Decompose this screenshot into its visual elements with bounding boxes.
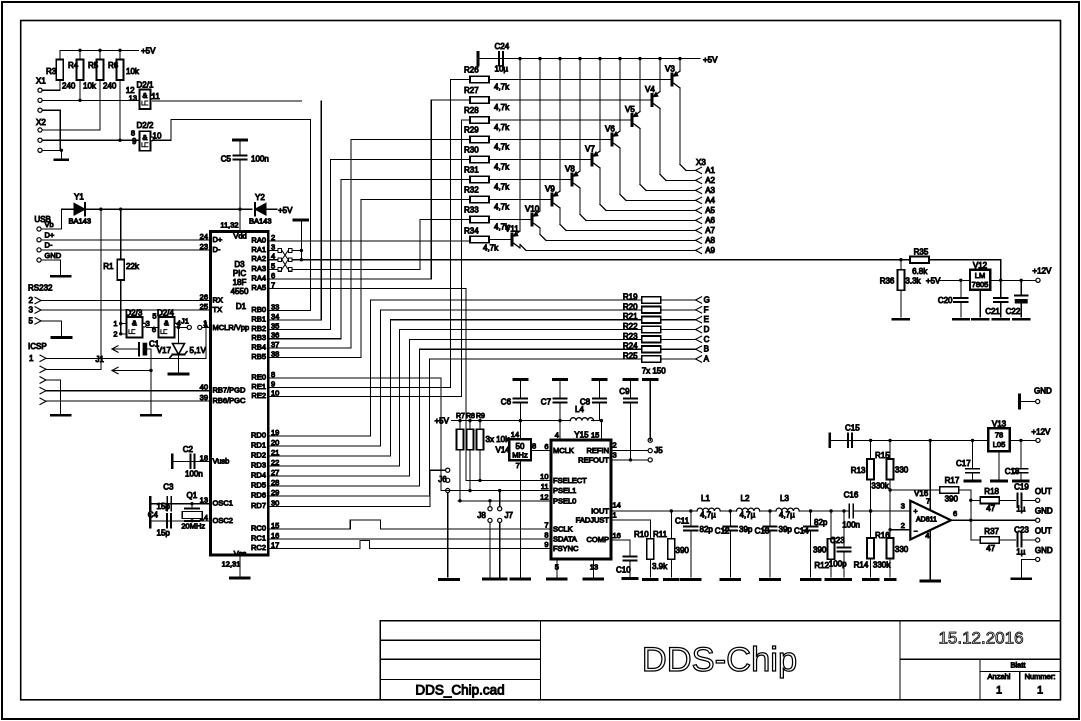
svg-text:1µ: 1µ (1016, 548, 1025, 557)
svg-text:11: 11 (541, 482, 549, 491)
svg-text:D-: D- (45, 241, 53, 250)
svg-text:100p: 100p (829, 560, 847, 569)
svg-text:RE0: RE0 (251, 373, 266, 382)
svg-text:V6: V6 (605, 125, 615, 134)
svg-text:R8: R8 (466, 413, 475, 420)
svg-text:14: 14 (511, 430, 519, 439)
svg-text:OSC2: OSC2 (213, 516, 233, 525)
svg-text:&: & (164, 319, 169, 328)
svg-text:R30: R30 (464, 146, 479, 155)
svg-text:D: D (704, 325, 710, 334)
svg-text:+12V: +12V (1031, 428, 1051, 437)
svg-text:E: E (704, 315, 709, 324)
svg-text:10: 10 (153, 132, 162, 141)
svg-text:2: 2 (901, 521, 905, 530)
svg-text:V5: V5 (625, 105, 635, 114)
svg-text:1: 1 (1037, 685, 1043, 697)
svg-text:13: 13 (590, 562, 598, 571)
svg-text:R37: R37 (984, 527, 999, 536)
svg-text:1: 1 (613, 511, 617, 520)
svg-text:6: 6 (953, 509, 957, 518)
svg-text:Y2: Y2 (255, 193, 265, 202)
svg-text:−: − (914, 529, 918, 536)
svg-text:C3: C3 (163, 483, 174, 492)
svg-text:GND: GND (1035, 546, 1053, 555)
svg-text:RC1: RC1 (251, 533, 266, 542)
svg-text:A4: A4 (705, 196, 715, 205)
svg-text:RB6/PGC: RB6/PGC (213, 396, 247, 405)
svg-text:39p: 39p (739, 525, 753, 534)
svg-text:GND: GND (1035, 507, 1053, 516)
svg-text:C19: C19 (1014, 483, 1029, 492)
svg-text:14: 14 (613, 501, 621, 510)
svg-text:C5: C5 (221, 155, 232, 164)
svg-text:12,31: 12,31 (222, 560, 241, 569)
svg-text:V7: V7 (585, 145, 595, 154)
svg-text:13: 13 (129, 94, 137, 103)
svg-text:R15: R15 (875, 451, 890, 460)
svg-text:C21: C21 (985, 307, 1000, 316)
svg-text:4,7k: 4,7k (494, 143, 510, 152)
svg-text:A7: A7 (705, 226, 715, 235)
svg-text:J1: J1 (181, 316, 189, 325)
svg-text:Q1: Q1 (187, 491, 198, 500)
svg-text:20MHz: 20MHz (181, 522, 205, 531)
svg-text:R11: R11 (653, 530, 668, 539)
svg-text:R27: R27 (464, 86, 479, 95)
svg-text:+5V: +5V (703, 56, 718, 65)
svg-text:RA5: RA5 (251, 283, 266, 292)
svg-text:RC0: RC0 (251, 523, 266, 532)
svg-text:C23: C23 (1014, 526, 1029, 535)
svg-text:8: 8 (544, 530, 548, 539)
svg-text:C1: C1 (149, 340, 160, 349)
svg-text:2: 2 (613, 441, 617, 450)
svg-text:J5: J5 (654, 446, 663, 455)
svg-text:240: 240 (103, 82, 117, 91)
svg-text:A6: A6 (705, 216, 715, 225)
svg-text:RD3: RD3 (251, 461, 266, 470)
svg-text:D3: D3 (234, 260, 245, 269)
svg-text:4550: 4550 (231, 287, 249, 296)
svg-text:X1: X1 (36, 77, 46, 86)
svg-text:10k: 10k (83, 82, 97, 91)
svg-text:R35: R35 (914, 248, 929, 257)
svg-text:G: G (704, 296, 710, 305)
svg-text:C18: C18 (1005, 467, 1020, 476)
svg-text:C23: C23 (830, 536, 845, 545)
svg-text:+: + (914, 509, 918, 516)
svg-text:RB7/PGD: RB7/PGD (213, 386, 247, 395)
svg-text:D2/4: D2/4 (157, 309, 174, 318)
svg-text:7x 150: 7x 150 (642, 367, 667, 376)
svg-text:RB3: RB3 (251, 333, 266, 342)
svg-text:4: 4 (925, 531, 929, 540)
svg-text:C8: C8 (580, 398, 591, 407)
svg-text:10: 10 (540, 472, 548, 481)
svg-text:C15: C15 (845, 424, 860, 433)
svg-text:240: 240 (62, 82, 76, 91)
svg-text:15: 15 (591, 431, 599, 440)
svg-text:8: 8 (532, 441, 536, 450)
svg-text:C14: C14 (794, 527, 809, 536)
svg-text:4,7k: 4,7k (494, 83, 510, 92)
svg-text:DDS_Chip.cad: DDS_Chip.cad (415, 683, 504, 698)
svg-text:MCLR/Vpp: MCLR/Vpp (213, 323, 250, 332)
svg-text:R32: R32 (464, 186, 479, 195)
svg-text:RE2: RE2 (251, 391, 266, 400)
svg-text:330: 330 (895, 545, 909, 554)
svg-text:V8: V8 (565, 165, 575, 174)
svg-text:V9: V9 (545, 185, 555, 194)
svg-text:D2/3: D2/3 (125, 309, 142, 318)
svg-text:A9: A9 (705, 246, 715, 255)
svg-text:330k: 330k (871, 482, 889, 491)
svg-text:RD4: RD4 (251, 471, 266, 480)
svg-text:X3: X3 (696, 158, 706, 167)
svg-text:C9: C9 (619, 387, 630, 396)
svg-text:A: A (704, 355, 710, 364)
svg-text:L3: L3 (780, 494, 789, 503)
svg-text:&: & (142, 133, 147, 142)
svg-text:PSEL0: PSEL0 (553, 496, 576, 505)
svg-text:390: 390 (676, 546, 690, 555)
svg-text:3x 10k: 3x 10k (486, 435, 511, 444)
svg-text:V3: V3 (665, 65, 675, 74)
svg-text:BA143: BA143 (69, 217, 92, 226)
svg-text:R1: R1 (103, 262, 114, 271)
svg-text:RA3: RA3 (251, 264, 266, 273)
svg-text:6.8k: 6.8k (912, 267, 928, 276)
svg-text:C22: C22 (1006, 307, 1021, 316)
svg-text:4,7µ: 4,7µ (740, 511, 756, 520)
svg-text:V13: V13 (992, 420, 1007, 429)
svg-text:R7: R7 (456, 413, 465, 420)
svg-text:82p: 82p (700, 525, 714, 534)
svg-text:R18: R18 (984, 487, 999, 496)
svg-text:15p: 15p (157, 502, 171, 511)
svg-text:4,7k: 4,7k (494, 123, 510, 132)
svg-text:11: 11 (152, 92, 161, 101)
svg-text:Blatt: Blatt (1010, 660, 1026, 669)
svg-text:+5V: +5V (435, 417, 450, 426)
svg-text:LM: LM (975, 271, 985, 280)
svg-text:C4: C4 (148, 511, 159, 520)
svg-text:Anzahl: Anzahl (988, 672, 1011, 681)
svg-text:82p: 82p (814, 518, 828, 527)
svg-text:J8: J8 (477, 511, 486, 520)
svg-text:Y15: Y15 (574, 431, 589, 440)
svg-text:4,7k: 4,7k (483, 244, 499, 253)
svg-text:390: 390 (945, 495, 959, 504)
svg-text:22k: 22k (126, 262, 140, 271)
svg-text:BA143: BA143 (249, 217, 272, 226)
svg-text:RX: RX (213, 296, 223, 305)
svg-text:D2/1: D2/1 (137, 80, 154, 89)
svg-text:C7: C7 (541, 398, 552, 407)
svg-text:1: 1 (996, 685, 1002, 697)
svg-text:7: 7 (926, 497, 930, 506)
svg-text:15.12.2016: 15.12.2016 (938, 629, 1023, 648)
svg-text:MHz: MHz (512, 451, 528, 460)
svg-text:C: C (704, 335, 710, 344)
svg-text:C17: C17 (956, 459, 971, 468)
svg-text:12: 12 (540, 492, 548, 501)
svg-text:R29: R29 (464, 126, 479, 135)
svg-text:D1: D1 (236, 302, 247, 311)
svg-text:R14: R14 (854, 561, 869, 570)
svg-text:4: 4 (555, 431, 559, 440)
svg-text:2: 2 (29, 296, 34, 305)
svg-text:FSELECT: FSELECT (553, 476, 587, 485)
svg-text:100n: 100n (251, 155, 269, 164)
svg-text:RB0: RB0 (251, 305, 266, 314)
svg-text:PIC: PIC (233, 269, 247, 278)
svg-text:Vb: Vb (45, 220, 54, 229)
svg-text:DDS-Chip: DDS-Chip (642, 641, 797, 679)
svg-text:330: 330 (895, 466, 909, 475)
svg-text:RB5: RB5 (251, 352, 266, 361)
svg-text:L1: L1 (701, 494, 710, 503)
svg-text:3.3k: 3.3k (905, 277, 921, 286)
svg-text:R16: R16 (875, 531, 890, 540)
svg-text:RB2: RB2 (251, 324, 266, 333)
svg-text:1: 1 (29, 354, 34, 363)
svg-text:TX: TX (213, 305, 223, 314)
svg-text:C20: C20 (938, 296, 953, 305)
svg-text:&: & (132, 319, 137, 328)
svg-text:1: 1 (113, 319, 117, 328)
svg-text:RD7: RD7 (251, 501, 266, 510)
svg-text:390: 390 (813, 546, 827, 555)
svg-text:+5V: +5V (278, 206, 293, 215)
svg-text:C13: C13 (755, 527, 770, 536)
svg-text:3: 3 (901, 502, 905, 511)
svg-text:RA1: RA1 (251, 245, 266, 254)
svg-text:C2: C2 (183, 445, 194, 454)
svg-text:V12: V12 (973, 261, 988, 270)
svg-text:4,7k: 4,7k (494, 103, 510, 112)
svg-text:MCLK: MCLK (553, 446, 574, 455)
svg-text:5: 5 (29, 316, 34, 325)
svg-text:V4: V4 (645, 85, 655, 94)
svg-text:FADJUST: FADJUST (576, 516, 610, 525)
svg-text:IOUT: IOUT (591, 507, 609, 516)
svg-text:10µ: 10µ (495, 65, 509, 74)
svg-text:B: B (704, 345, 709, 354)
svg-text:R33: R33 (464, 206, 479, 215)
svg-text:D+: D+ (213, 235, 223, 244)
svg-text:+5V: +5V (141, 47, 156, 56)
svg-text:4,7k: 4,7k (494, 183, 510, 192)
svg-text:16: 16 (613, 531, 621, 540)
svg-text:J6: J6 (438, 475, 447, 484)
svg-text:RA0: RA0 (251, 236, 266, 245)
svg-text:18F: 18F (233, 278, 247, 287)
svg-text:47: 47 (986, 504, 995, 513)
svg-text:+12V: +12V (1032, 267, 1052, 276)
svg-text:A5: A5 (705, 206, 715, 215)
svg-text:Nummer:: Nummer: (1025, 672, 1056, 681)
svg-text:10k: 10k (126, 67, 140, 76)
svg-text:D+: D+ (45, 231, 55, 240)
svg-text:Y1: Y1 (74, 193, 84, 202)
svg-text:39p: 39p (779, 525, 793, 534)
svg-text:15p: 15p (157, 529, 171, 538)
svg-text:L05: L05 (993, 440, 1006, 449)
svg-text:C12: C12 (715, 527, 730, 536)
svg-text:RD1: RD1 (251, 441, 266, 450)
svg-text:D-: D- (213, 245, 221, 254)
svg-text:C16: C16 (844, 491, 859, 500)
svg-text:R36: R36 (880, 277, 895, 286)
svg-text:R5: R5 (88, 61, 99, 70)
svg-text:6: 6 (152, 325, 156, 334)
svg-text:RC2: RC2 (251, 543, 266, 552)
svg-text:SCLK: SCLK (553, 524, 573, 533)
svg-text:78: 78 (995, 431, 1003, 440)
svg-text:47: 47 (986, 544, 995, 553)
svg-text:3: 3 (29, 306, 34, 315)
svg-text:OUT: OUT (1035, 487, 1052, 496)
svg-text:RA4: RA4 (251, 274, 266, 283)
svg-text:V11: V11 (505, 225, 519, 234)
svg-text:R34: R34 (464, 227, 479, 236)
svg-text:R9: R9 (476, 413, 485, 420)
svg-text:9: 9 (544, 540, 548, 549)
svg-text:4,7µ: 4,7µ (700, 511, 716, 520)
svg-text:R26: R26 (464, 66, 479, 75)
svg-text:A1: A1 (705, 166, 715, 175)
svg-text:Vdd: Vdd (233, 232, 246, 241)
svg-text:V14: V14 (496, 446, 511, 455)
svg-text:REFOUT: REFOUT (578, 455, 609, 464)
svg-text:11,32: 11,32 (220, 221, 238, 230)
svg-text:R28: R28 (464, 106, 479, 115)
svg-text:Vusb: Vusb (213, 456, 230, 465)
svg-text:X2: X2 (36, 118, 46, 127)
svg-text:C10: C10 (616, 566, 631, 575)
svg-text:3.9k: 3.9k (652, 562, 668, 571)
svg-text:330k: 330k (873, 561, 891, 570)
svg-text:R31: R31 (464, 166, 479, 175)
svg-text:COMP: COMP (587, 535, 610, 544)
svg-text:RD0: RD0 (251, 431, 266, 440)
svg-text:7: 7 (544, 520, 548, 529)
svg-text:RA2: RA2 (251, 254, 266, 263)
svg-text:PSEL1: PSEL1 (553, 486, 576, 495)
svg-text:A8: A8 (705, 236, 715, 245)
svg-text:1µ: 1µ (1016, 505, 1025, 514)
svg-text:100n: 100n (842, 521, 860, 530)
svg-text:R13: R13 (851, 466, 866, 475)
svg-text:5: 5 (152, 312, 156, 321)
svg-text:RD2: RD2 (251, 451, 266, 460)
svg-text:C11: C11 (675, 517, 690, 526)
svg-text:FSYNC: FSYNC (553, 544, 579, 553)
svg-text:R17: R17 (945, 476, 960, 485)
svg-text:V10: V10 (525, 205, 540, 214)
svg-text:5,1V: 5,1V (190, 346, 207, 355)
svg-text:AD811: AD811 (916, 517, 937, 524)
svg-text:3: 3 (613, 451, 617, 460)
svg-text:&: & (142, 91, 147, 100)
svg-text:4,7k: 4,7k (494, 203, 510, 212)
svg-text:1: 1 (203, 319, 207, 328)
svg-text:OSC1: OSC1 (213, 499, 233, 508)
svg-text:7: 7 (516, 461, 520, 470)
svg-text:R6: R6 (108, 61, 119, 70)
svg-text:9: 9 (132, 137, 137, 146)
svg-text:R4: R4 (68, 61, 79, 70)
svg-text:4,7k: 4,7k (494, 163, 510, 172)
svg-text:REFIN: REFIN (587, 446, 610, 455)
svg-text:C24: C24 (495, 42, 510, 51)
svg-text:RB4: RB4 (251, 343, 266, 352)
svg-text:+5V: +5V (926, 277, 941, 286)
svg-text:D2/2: D2/2 (137, 121, 154, 130)
svg-text:7805: 7805 (972, 280, 989, 289)
svg-text:OUT: OUT (1035, 527, 1052, 536)
svg-text:RD6: RD6 (251, 491, 266, 500)
svg-text:F: F (704, 305, 709, 314)
svg-text:100n: 100n (185, 470, 203, 479)
svg-text:RD5: RD5 (251, 481, 266, 490)
svg-text:GND: GND (1034, 387, 1052, 396)
svg-text:A3: A3 (705, 186, 715, 195)
svg-text:4,7µ: 4,7µ (779, 511, 795, 520)
svg-text:J7: J7 (505, 511, 514, 520)
svg-text:J1: J1 (96, 355, 105, 364)
svg-text:RS232: RS232 (28, 284, 53, 293)
svg-text:R10: R10 (634, 530, 649, 539)
svg-text:6: 6 (544, 442, 548, 451)
svg-text:A2: A2 (705, 176, 715, 185)
svg-text:SDATA: SDATA (553, 534, 577, 543)
svg-text:C6: C6 (501, 398, 512, 407)
svg-text:RE1: RE1 (251, 382, 266, 391)
svg-text:ICSP: ICSP (28, 342, 47, 351)
svg-text:R3: R3 (46, 67, 57, 76)
svg-text:GND: GND (45, 251, 62, 260)
svg-text:2: 2 (113, 330, 117, 339)
svg-text:R12: R12 (814, 561, 829, 570)
svg-text:RB1: RB1 (251, 314, 266, 323)
svg-text:3: 3 (146, 319, 150, 328)
svg-text:L2: L2 (741, 494, 750, 503)
